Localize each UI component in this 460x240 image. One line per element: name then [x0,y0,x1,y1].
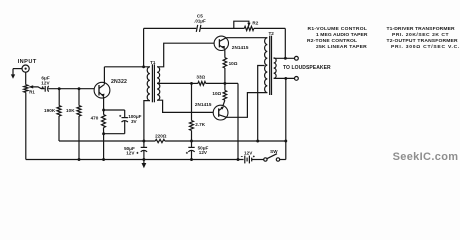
svg-text:25K LINEAR TAPER: 25K LINEAR TAPER [316,44,367,50]
svg-text:220Ω: 220Ω [155,134,167,139]
svg-text:T2: T2 [268,31,274,36]
svg-text:R2-TONE CONTROL: R2-TONE CONTROL [307,38,357,44]
svg-text:R2: R2 [252,21,258,26]
svg-text:12V: 12V [126,151,135,156]
svg-text:10K: 10K [66,108,75,113]
svg-text:10Ω: 10Ω [229,61,238,66]
svg-text:2N1415: 2N1415 [232,45,249,50]
svg-text:R1: R1 [29,90,35,95]
svg-text:3V: 3V [131,119,138,124]
svg-text:.01μF: .01μF [194,18,206,23]
svg-text:33Ω: 33Ω [196,74,205,79]
svg-text:12V: 12V [199,150,208,155]
svg-text:1 MEG AUDIO TAPER: 1 MEG AUDIO TAPER [316,32,368,38]
svg-text:2N1415: 2N1415 [195,102,212,107]
svg-text:INPUT: INPUT [18,59,37,65]
svg-text:2.7K: 2.7K [195,122,206,127]
svg-text:12V: 12V [244,150,253,155]
svg-text:PRI. 300Ω CT/SEC V.C.: PRI. 300Ω CT/SEC V.C. [391,44,460,50]
svg-text:TO LOUDSPEAKER: TO LOUDSPEAKER [283,65,331,71]
svg-text:T1-DRIVER TRANSFORMER: T1-DRIVER TRANSFORMER [387,26,455,32]
svg-text:190K: 190K [44,108,56,113]
svg-text:T2-OUTPUT TRANSFORMER: T2-OUTPUT TRANSFORMER [387,38,459,44]
svg-text:12V: 12V [41,81,50,86]
svg-text:470: 470 [91,116,99,121]
svg-text:R1-VOLUME CONTROL: R1-VOLUME CONTROL [308,26,368,32]
svg-text:SW: SW [270,149,278,154]
svg-text:2N322: 2N322 [111,79,127,85]
svg-text:PRI. 20K/SEC 2K CT: PRI. 20K/SEC 2K CT [392,32,449,38]
svg-text:10Ω: 10Ω [212,91,221,96]
svg-text:SeekIC.com: SeekIC.com [393,151,459,163]
